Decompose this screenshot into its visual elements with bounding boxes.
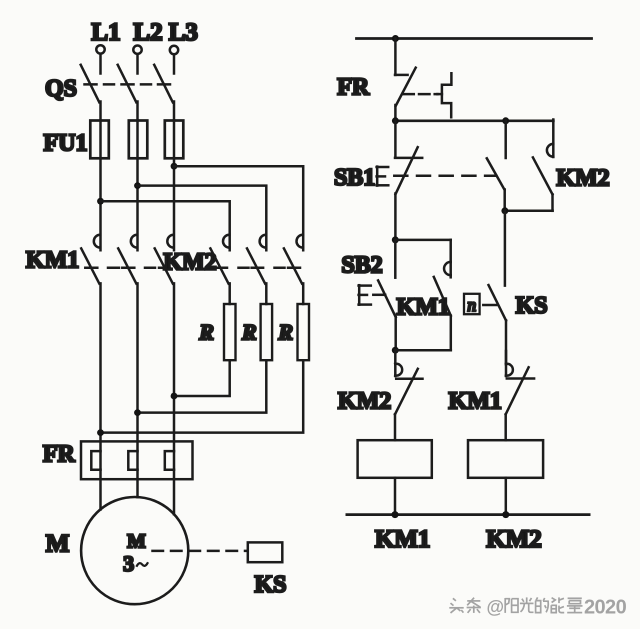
svg-text:KM1: KM1 bbox=[449, 389, 502, 415]
wire coil KM2 to bottom rail bbox=[505, 478, 508, 515]
svg-text:QS: QS bbox=[45, 76, 77, 102]
wire resistor R1 to phase C bbox=[174, 360, 230, 396]
contactor KM1 auxiliary NO contact (self hold) bbox=[434, 240, 451, 350]
svg-text:SB2: SB2 bbox=[341, 253, 382, 279]
svg-text:SB1: SB1 bbox=[334, 165, 375, 191]
svg-text:KM1: KM1 bbox=[397, 295, 450, 321]
svg-text:KM1: KM1 bbox=[375, 526, 431, 553]
fuse FU1 element 1 bbox=[90, 121, 109, 159]
thermal relay FR trip element symbol bbox=[437, 73, 451, 117]
svg-text:FR: FR bbox=[337, 75, 370, 101]
thermal relay FR heater element 3 bbox=[165, 451, 174, 470]
node coil KM2 on bottom rail bbox=[502, 511, 509, 518]
node B junction bbox=[392, 347, 399, 354]
coil KM2 bbox=[468, 440, 543, 478]
pushbutton SB2 actuator symbol bbox=[359, 285, 371, 305]
svg-text:2020: 2020 bbox=[584, 597, 627, 619]
pushbutton SB2 NO contact bbox=[378, 240, 396, 350]
node below FR bbox=[392, 117, 399, 124]
node phase A feeder junction bbox=[97, 198, 104, 205]
svg-text:R: R bbox=[198, 319, 214, 344]
contactor linkage dashed line KM1 bbox=[85, 267, 169, 270]
coil KM1 bbox=[358, 440, 432, 478]
wire QS pole 2 to fuse bbox=[136, 102, 139, 121]
speed relay KS box bbox=[248, 542, 282, 562]
dashed link motor to speed relay KS bbox=[153, 550, 247, 553]
svg-text:FR: FR bbox=[43, 441, 76, 467]
wire resistor R2 to phase B bbox=[138, 360, 267, 412]
wire phase B (fuse2 to KM1 contact) bbox=[136, 158, 139, 250]
svg-text:n: n bbox=[467, 295, 476, 315]
svg-text:KS: KS bbox=[516, 293, 548, 319]
watermark glyph yang bbox=[504, 598, 506, 613]
node phase C feeder junction bbox=[171, 163, 178, 170]
svg-text:KM2: KM2 bbox=[556, 165, 609, 191]
svg-text:KM1: KM1 bbox=[26, 248, 79, 274]
watermark glyph neng bbox=[552, 598, 556, 603]
wire phase A (fuse1 to KM1 contact) bbox=[99, 158, 102, 250]
wire rail below FR bbox=[395, 120, 553, 123]
svg-text:KM2: KM2 bbox=[163, 249, 216, 275]
thermal relay FR NC contact bbox=[395, 39, 416, 121]
wire feeder A to KM2 pole 1 bbox=[101, 201, 230, 250]
speed relay KS NO contact bbox=[489, 211, 507, 364]
watermark glyph liang bbox=[568, 597, 582, 599]
svg-text:L3: L3 bbox=[169, 19, 198, 46]
wire L3 lead bbox=[173, 54, 176, 73]
node phase B feeder junction bbox=[134, 182, 141, 189]
switch QS pole 2 blade bbox=[118, 65, 137, 103]
node R1 junction on phase C bbox=[171, 393, 178, 400]
wire node B to KM1 aux branch bbox=[395, 349, 451, 352]
thermal relay FR heater box bbox=[81, 441, 193, 479]
node R2 junction on phase B bbox=[134, 409, 141, 416]
svg-text:KM2: KM2 bbox=[486, 526, 542, 553]
wire KM2 pole 1 to resistor bbox=[228, 283, 231, 304]
svg-text:FU1: FU1 bbox=[44, 131, 88, 157]
svg-text:L2: L2 bbox=[133, 19, 162, 46]
wire feeder C to KM2 pole 3 bbox=[174, 166, 303, 250]
wire L2 lead bbox=[136, 54, 139, 73]
svg-text:R: R bbox=[241, 319, 257, 344]
svg-text:M: M bbox=[46, 530, 70, 557]
resistor R3 bbox=[298, 304, 310, 360]
contactor KM2 auxiliary NO contact (self hold) bbox=[505, 120, 554, 211]
pushbutton SB1 NC contact bbox=[395, 121, 422, 240]
node coil KM1 on bottom rail bbox=[392, 511, 399, 518]
contactor KM1 NC interlock contact bbox=[506, 351, 534, 440]
svg-text:KM2: KM2 bbox=[338, 389, 391, 415]
wire node A to KM1 aux branch bbox=[395, 239, 450, 242]
terminal L2 bbox=[133, 46, 141, 54]
wire KM1 pole 3 down bbox=[173, 283, 176, 514]
pushbutton SB1 NO contact bbox=[487, 121, 506, 211]
thermal relay FR heater element 2 bbox=[128, 451, 137, 470]
thermal relay FR linkage dashes bbox=[403, 93, 437, 96]
svg-text:3: 3 bbox=[123, 551, 134, 576]
wire KM2 pole 3 to resistor bbox=[302, 283, 305, 304]
svg-text:M: M bbox=[127, 532, 145, 553]
resistor R1 bbox=[224, 304, 236, 360]
wire L1 lead bbox=[99, 54, 102, 74]
watermark glyph tou bbox=[453, 598, 456, 601]
node R3 junction on phase A bbox=[97, 429, 104, 436]
switch QS pole 3 blade bbox=[154, 65, 173, 103]
svg-text:@: @ bbox=[487, 597, 505, 617]
fuse FU1 element 3 bbox=[165, 121, 184, 159]
wire QS pole 1 to fuse bbox=[99, 102, 102, 121]
thermal relay FR heater element 1 bbox=[91, 451, 100, 470]
contactor linkage dashed line KM2 bbox=[215, 267, 301, 270]
terminal L1 bbox=[96, 45, 104, 53]
switch QS linkage dashed line bbox=[85, 83, 171, 86]
svg-text:R: R bbox=[277, 319, 293, 344]
pushbutton SB1 linkage dashed line bbox=[394, 175, 496, 178]
svg-text:KS: KS bbox=[254, 572, 286, 598]
contactor KM1 main contact pole 3 bbox=[155, 235, 174, 284]
wire top supply rail bbox=[357, 37, 592, 40]
wire KM1 pole 2 down bbox=[136, 283, 139, 497]
speed relay KS n box bbox=[464, 294, 480, 314]
wire feeder B to KM2 pole 2 bbox=[138, 186, 267, 251]
watermark glyph de bbox=[536, 597, 538, 600]
watermark glyph guang bbox=[526, 597, 528, 603]
wire KM2 pole 2 to resistor bbox=[265, 283, 268, 304]
wire KM1 pole 1 down bbox=[99, 283, 102, 509]
contactor KM2 main contact pole 2 bbox=[247, 235, 266, 284]
contactor KM1 main contact pole 1 bbox=[81, 235, 100, 284]
contactor KM1 main contact pole 2 bbox=[118, 235, 137, 284]
resistor R2 bbox=[261, 304, 273, 360]
pushbutton SB1 actuator symbol bbox=[377, 167, 389, 186]
contactor KM2 NC interlock contact bbox=[395, 350, 423, 440]
wire coil KM1 to bottom rail bbox=[394, 478, 397, 515]
motor M circle bbox=[81, 497, 188, 604]
wire bottom supply rail bbox=[347, 513, 589, 516]
pushbutton SB2 linkage dash bbox=[373, 294, 385, 297]
watermark glyph tiao bbox=[467, 600, 480, 602]
node below SB1 NO bbox=[501, 207, 508, 214]
watermark bbox=[449, 597, 582, 613]
wire resistor R3 to phase A bbox=[101, 360, 304, 432]
node A junction bbox=[392, 236, 399, 243]
switch QS pole 1 blade bbox=[81, 65, 100, 103]
contactor KM2 main contact pole 3 bbox=[284, 235, 303, 284]
svg-text:L1: L1 bbox=[91, 19, 120, 46]
wire phase C (fuse3 to KM1 contact) bbox=[173, 158, 176, 250]
node branch to SB1 NO bbox=[502, 117, 509, 124]
speed relay KS linkage dash bbox=[483, 304, 496, 307]
contactor KM2 main contact pole 1 bbox=[210, 235, 229, 284]
wire QS pole 3 to fuse bbox=[173, 102, 176, 121]
terminal L3 bbox=[170, 46, 178, 54]
fuse FU1 element 2 bbox=[129, 121, 148, 159]
node top rail junction bbox=[392, 35, 399, 42]
